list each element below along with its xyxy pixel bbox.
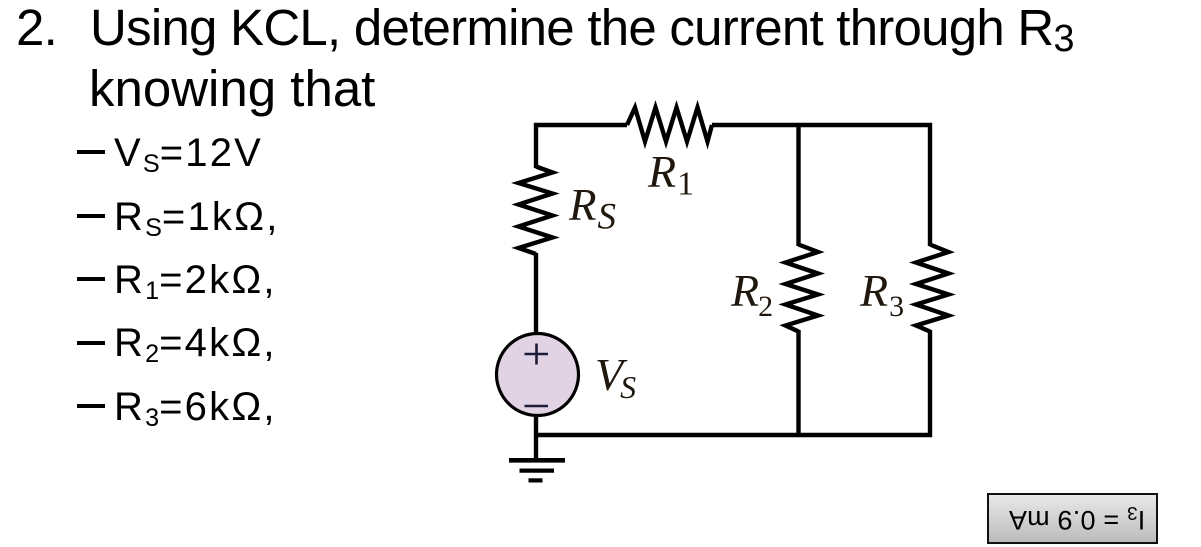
wire R3 branch lower <box>928 330 932 437</box>
bullet RS=1kOhm <box>114 195 280 240</box>
wire RS to source <box>534 253 538 334</box>
answer box I3 = 0.9 mA (rotated) <box>987 493 1158 544</box>
wire source to ground <box>534 414 538 460</box>
wire top-left horizontal (node A to R1 left) <box>534 123 627 127</box>
wire R3 branch upper <box>928 123 932 246</box>
resistor R1 <box>627 108 712 142</box>
bullet VS=12V <box>114 131 263 176</box>
ground <box>509 460 565 480</box>
bullet dash 3 <box>77 277 106 281</box>
title line 1 <box>90 0 1075 57</box>
bullet R1=2kOhm <box>114 258 277 303</box>
minus sign <box>525 405 549 408</box>
wire bottom horizontal <box>536 433 932 437</box>
svg-text:RS: RS <box>568 180 616 238</box>
resistor RS <box>519 167 553 255</box>
svg-text:VS: VS <box>595 349 636 405</box>
title number <box>16 0 57 57</box>
bullet dash 4 <box>77 341 106 345</box>
resistor R2 <box>786 245 819 332</box>
svg-text:R1: R1 <box>647 146 694 203</box>
bullet R3=6kOhm <box>114 385 277 430</box>
bullet dash 2 <box>77 214 106 218</box>
svg-text:R2: R2 <box>730 265 773 323</box>
wire R2 branch lower <box>796 330 800 437</box>
bullet dash 5 <box>77 404 106 408</box>
voltage source VS <box>497 334 579 416</box>
wire left vertical upper (top node to RS) <box>534 123 538 168</box>
title line 2 <box>89 59 375 118</box>
plus sign <box>525 353 549 356</box>
resistor R3 <box>916 245 949 332</box>
wire R2 branch upper <box>796 123 800 246</box>
svg-text:R3: R3 <box>859 265 904 323</box>
bullet dash 1 <box>77 150 106 154</box>
wire top-right horizontal (R1 right to node B) <box>712 123 932 127</box>
bullet R2=4kOhm <box>114 321 277 366</box>
